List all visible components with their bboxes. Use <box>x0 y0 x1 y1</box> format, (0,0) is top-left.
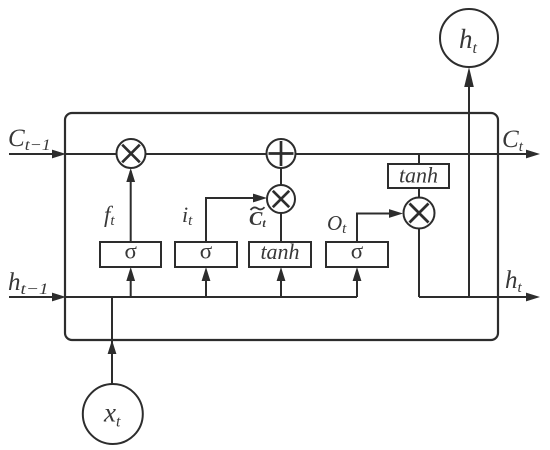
tanh output box <box>388 164 449 188</box>
wire: h_t branch up to output circle <box>464 67 474 297</box>
multiply node on C-line (forget) <box>117 139 146 168</box>
svg-text:σ: σ <box>351 239 364 264</box>
svg-text:Ct: Ct <box>502 126 524 155</box>
wire: C-line main horizontal through cell <box>65 153 527 155</box>
wire: x_t input vertical with arrowhead at cell bottom edge <box>108 297 117 384</box>
tanh gate box (candidate) <box>249 242 311 267</box>
wire: C-line down to tanh output box <box>418 154 420 164</box>
LSTM cell outer box <box>65 113 498 340</box>
plus glyph (add node) <box>269 141 294 166</box>
wire: output multiply node down to h-line <box>418 228 420 297</box>
sigma gate box 3 (output gate) <box>326 242 388 267</box>
wire: tanh output box to output multiply node <box>418 188 420 198</box>
x_t input circle <box>83 384 143 444</box>
svg-text:tanh: tanh <box>399 163 438 188</box>
multiply node (output) <box>404 198 435 229</box>
wire: h-line rise into output sigma gate <box>353 267 362 297</box>
wire: arrow from h-line into sigma gate 1 <box>126 267 135 297</box>
label C-tilde_t (candidate) <box>249 207 266 230</box>
h_t output circle <box>440 9 498 67</box>
sigma gate box 1 (forget gate) <box>100 242 161 267</box>
svg-text:ht−1: ht−1 <box>8 269 49 298</box>
wire: tanh gate to candidate multiply node <box>280 213 282 242</box>
svg-text:ft: ft <box>104 202 115 229</box>
wire: f gate output arrow into multiply node <box>126 168 135 242</box>
wire: candidate multiply to add node <box>280 168 282 185</box>
svg-text:Ct: Ct <box>249 208 266 230</box>
svg-text:ht: ht <box>505 267 523 296</box>
wire: C-line entry arrow (left) <box>9 150 66 159</box>
wire: h-line internal horizontal <box>65 296 357 298</box>
wire: arrow from h-line into tanh gate <box>277 267 286 297</box>
multiply cross glyph (candidate node) <box>273 191 289 207</box>
multiply cross glyph (forget node) <box>122 145 140 163</box>
wire: O gate output arrow into output multiply node <box>357 209 403 242</box>
wire: i gate output arrow into multiply node <box>206 194 267 242</box>
sigma gate box 2 (input gate) <box>175 242 237 267</box>
wire: h-line output horizontal with exit arrow (right) <box>419 293 540 302</box>
add node on C-line <box>267 139 296 168</box>
wire: h-line entry arrow (left) <box>9 293 66 302</box>
svg-text:σ: σ <box>200 239 213 264</box>
multiply node (candidate) <box>267 185 295 213</box>
wire: C-line exit arrow (right) <box>526 150 540 159</box>
wire: arrow from h-line into sigma gate 2 <box>202 267 211 297</box>
svg-text:Ct−1: Ct−1 <box>8 125 51 154</box>
svg-text:it: it <box>182 202 193 229</box>
svg-text:σ: σ <box>124 239 137 264</box>
svg-text:tanh: tanh <box>260 239 299 264</box>
svg-text:Ot: Ot <box>327 211 347 237</box>
multiply cross glyph (output node) <box>410 204 429 223</box>
